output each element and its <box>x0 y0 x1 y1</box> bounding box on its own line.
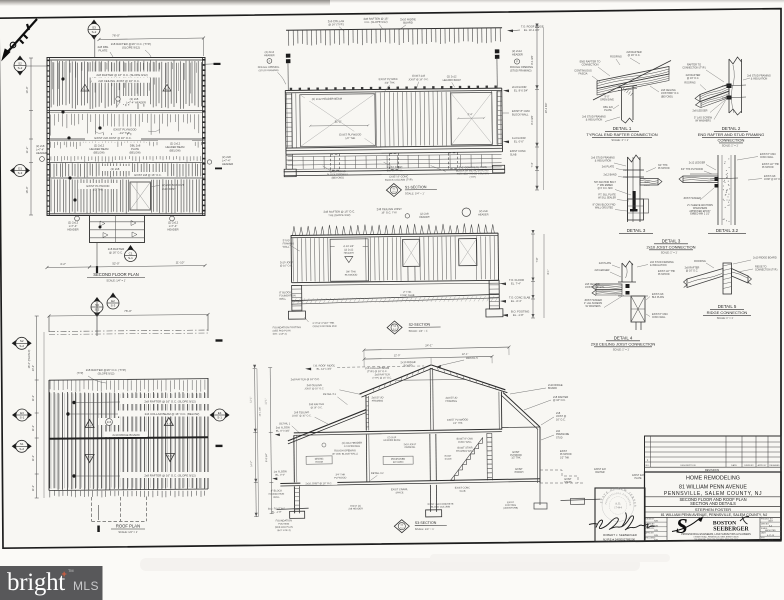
svg-text:EXIST: EXIST <box>565 478 572 481</box>
svg-text:DETAIL 3.2: DETAIL 3.2 <box>716 228 739 233</box>
svg-text:4'-2": 4'-2" <box>60 262 66 266</box>
svg-text:ROOF PLAN: ROOF PLAN <box>116 524 140 529</box>
svg-text:76'-0": 76'-0" <box>124 309 132 313</box>
S3 left dim stack <box>270 368 272 514</box>
svg-text:TM: TM <box>68 569 73 573</box>
roof plan bump-out dashed <box>91 497 93 521</box>
svg-text:EXIST 2x8: EXIST 2x8 <box>412 74 425 78</box>
svg-text:NJ P.E # 24GE02789200: NJ P.E # 24GE02789200 <box>603 537 635 541</box>
svg-text:SHT 1 OF 2): SHT 1 OF 2) <box>277 529 291 532</box>
S3 2nd floor line <box>294 429 502 433</box>
svg-text:CONNECTION (TYP.): CONNECTION (TYP.) <box>755 270 778 272</box>
roof plan edge lines <box>48 380 50 491</box>
svg-text:EXIST 1/2" THK: EXIST 1/2" THK <box>658 270 676 273</box>
svg-text:SCALE: 1/4" = 1': SCALE: 1/4" = 1' <box>409 329 429 333</box>
svg-text:ROOFING: ROOFING <box>610 56 622 59</box>
svg-text:WALL: WALL <box>279 298 286 301</box>
S1 footing line <box>284 169 505 172</box>
svg-text:E2: E2 <box>111 299 115 303</box>
S1 left end posts <box>286 54 291 58</box>
svg-text:BLOCK COLUMN (TYP): BLOCK COLUMN (TYP) <box>385 179 412 182</box>
S2 mid window <box>403 239 420 266</box>
svg-text:W/WASHERS: W/WASHERS <box>693 207 708 210</box>
svg-text:11'-2": 11'-2" <box>25 147 29 154</box>
junction dots <box>61 77 64 80</box>
svg-text:HEADER BEAM: HEADER BEAM <box>384 439 401 442</box>
detail 5 left rafter board <box>687 269 723 288</box>
svg-text:DATE:: DATE: <box>761 532 767 535</box>
svg-text:1/2" THK: 1/2" THK <box>453 422 463 425</box>
callout D1 left <box>10 165 30 177</box>
S1 rafter plate line <box>286 28 502 30</box>
svg-text:EL. -1'-8": EL. -1'-8" <box>513 313 524 317</box>
svg-text:C1: C1 <box>129 251 133 255</box>
svg-text:@ 6' O.C. MIN: @ 6' O.C. MIN <box>598 188 613 190</box>
svg-text:L=7'-4": L=7'-4" <box>169 224 177 228</box>
roof triangles <box>85 420 94 428</box>
S1 section label <box>386 183 401 196</box>
roof rafter light top band <box>50 380 205 392</box>
svg-text:(2) 2x12: (2) 2x12 <box>447 74 457 78</box>
detail 3 anchor bolt <box>633 191 636 211</box>
svg-text:76'-0": 76'-0" <box>112 34 120 38</box>
callout C1 below bump-out <box>125 245 137 262</box>
svg-text:JOIST: JOIST <box>644 185 651 187</box>
svg-text:2x8 RAFTER @ 16" O.C. (SLOPE 9: 2x8 RAFTER @ 16" O.C. (SLOPE 9/12) <box>144 474 195 478</box>
svg-text:HEADER: HEADER <box>419 216 430 219</box>
svg-text:S1-SECTION: S1-SECTION <box>405 185 427 189</box>
triangle symbols band1 <box>81 85 89 92</box>
svg-text:FASCIA: FASCIA <box>579 73 588 76</box>
svg-text:11'-2": 11'-2" <box>32 455 35 461</box>
svg-text:DETAIL 3: DETAIL 3 <box>627 228 646 233</box>
interior beam lines <box>47 110 205 112</box>
callout E4 right <box>210 409 230 421</box>
right black section mark 2 <box>216 445 223 447</box>
svg-text:EXIST PLYWOOD: EXIST PLYWOOD <box>87 184 110 188</box>
porch steps dashed <box>540 470 584 483</box>
svg-text:W/ WASHERS: W/ WASHERS <box>695 120 711 123</box>
svg-text:2'-4": 2'-4" <box>467 112 472 116</box>
svg-text:PLATE: PLATE <box>99 49 108 53</box>
svg-text:JOIST @ 16" O.C.: JOIST @ 16" O.C. <box>305 387 325 390</box>
svg-text:OPEN EAVE: OPEN EAVE <box>600 99 614 102</box>
rafter dim band note 2 <box>120 472 220 478</box>
svg-text:HEADER: HEADER <box>67 228 78 232</box>
svg-text:SCALE: 1" = 1': SCALE: 1" = 1' <box>661 252 678 255</box>
svg-text:BLOCK COLUMN: BLOCK COLUMN <box>431 505 450 508</box>
svg-text:ROOFING: ROOFING <box>694 260 706 263</box>
svg-text:CONNECTION: CONNECTION <box>718 138 745 143</box>
svg-text:+: + <box>62 569 67 579</box>
svg-text:2nd FLOOR: 2nd FLOOR <box>512 85 527 89</box>
svg-text:RIDGE CONNECTION: RIDGE CONNECTION <box>707 310 748 315</box>
S2 rafter spikes <box>292 223 494 235</box>
svg-text:TELEPHONE: (856) 678-4100 FAX: TELEPHONE: (856) 678-4100 FAX: (856) 678… <box>694 538 738 541</box>
svg-text:1/2" THK: 1/2" THK <box>511 458 521 460</box>
svg-text:8'-0 3/4": 8'-0 3/4" <box>531 115 534 124</box>
svg-text:RELEASED: RELEASED <box>769 464 780 467</box>
S3 footings <box>290 511 305 518</box>
svg-text:1/2" THK: 1/2" THK <box>560 457 570 459</box>
svg-text:2x10 JOIST CONNECTION: 2x10 JOIST CONNECTION <box>646 245 695 250</box>
svg-text:3/4" THK PLYWOOD: 3/4" THK PLYWOOD <box>681 168 704 171</box>
svg-text:2x8 HEADER: 2x8 HEADER <box>348 507 363 510</box>
detail 4 x-braced box <box>631 296 645 322</box>
S3 first floor rooms <box>306 456 332 464</box>
left vertical dim lines roof plan <box>36 316 38 498</box>
svg-text:STEPHEN FOSTER: STEPHEN FOSTER <box>695 507 731 512</box>
svg-text:AT OPENINGS: AT OPENINGS <box>344 445 361 448</box>
S3 grade line <box>277 508 309 509</box>
S1 end post connectors <box>287 63 289 90</box>
roof rafter light bottom fringe <box>50 491 205 498</box>
svg-text:BLOCK WALL: BLOCK WALL <box>512 112 529 116</box>
svg-text:@ 16" O.C.: @ 16" O.C. <box>628 54 641 57</box>
svg-text:@ 16" O.C.: @ 16" O.C. <box>553 399 566 402</box>
svg-text:STAIR: STAIR <box>445 458 452 461</box>
svg-text:EL. 14'-1 3/4": EL. 14'-1 3/4" <box>317 368 332 371</box>
S1 wall right edge <box>501 88 504 152</box>
svg-text:E4: E4 <box>218 411 222 415</box>
S2 wall bottom <box>292 280 499 282</box>
roof rafter heavy hatch <box>50 392 205 490</box>
svg-text:JOIST @ 16" O.C.: JOIST @ 16" O.C. <box>585 286 605 289</box>
ridge board <box>49 437 208 439</box>
S2 left opening <box>330 239 368 281</box>
S1 header labels <box>305 96 349 101</box>
svg-text:HEADER: HEADER <box>512 52 523 56</box>
svg-text:DRWN BY: DRWN BY <box>744 465 754 467</box>
svg-text:2x6 COLLAR BEAM @ 16" O.C. (BE: 2x6 COLLAR BEAM @ 16" O.C. (BELOW) <box>145 412 200 416</box>
svg-text:O.C. (SLOPE 9/12): O.C. (SLOPE 9/12) <box>364 20 387 24</box>
svg-text:& INSULATION: & INSULATION <box>650 264 667 267</box>
S3 gable left wall <box>365 395 367 430</box>
detail 3.2 concrete wall <box>717 155 719 225</box>
svg-text:EXIST: EXIST <box>560 450 567 453</box>
svg-text:BLOCK WALL: BLOCK WALL <box>387 169 404 172</box>
svg-text:@ 16" (TYP.): @ 16" (TYP.) <box>328 22 344 26</box>
svg-text:(BEYOND): (BEYOND) <box>332 176 344 179</box>
svg-text:& INSULATION: & INSULATION <box>751 78 768 81</box>
svg-text:D1: D1 <box>18 166 22 170</box>
svg-text:11'-1": 11'-1" <box>249 397 252 403</box>
svg-text:AS NOTED: AS NOTED <box>765 529 776 532</box>
svg-text:RJS: RJS <box>654 525 658 527</box>
svg-text:APPROVED EPOXY: APPROVED EPOXY <box>689 210 711 213</box>
svg-text:L=7'-4": L=7'-4" <box>69 224 77 228</box>
svg-text:W/ WASHERS: W/ WASHERS <box>586 305 601 308</box>
svg-text:7" MIN EMBED: 7" MIN EMBED <box>597 185 613 187</box>
svg-text:2x10 RIDGE BOARD: 2x10 RIDGE BOARD <box>112 433 139 437</box>
svg-text:S3-SECTION: S3-SECTION <box>415 521 437 525</box>
S3 gable roof left slope <box>359 365 431 394</box>
svg-text:16" O.C.: 16" O.C. <box>556 418 566 421</box>
svg-text:T.O. ROOF RIDGE: T.O. ROOF RIDGE <box>521 25 544 29</box>
svg-text:4" LAG SCREWS: 4" LAG SCREWS <box>584 302 603 305</box>
S1 rafter ticks <box>289 28 501 46</box>
porch right wall <box>539 427 541 483</box>
svg-text:TYPICAL END RAFTER CONNECTION: TYPICAL END RAFTER CONNECTION <box>586 132 657 137</box>
S3 attic collar ties <box>397 379 465 382</box>
svg-text:(STUD FRAMING): (STUD FRAMING) <box>259 69 279 72</box>
svg-text:(2) 2x8: (2) 2x8 <box>222 155 231 159</box>
svg-text:DETAIL 4: DETAIL 4 <box>614 336 633 341</box>
collar beam note <box>118 411 223 417</box>
svg-text:DETAIL 3: DETAIL 3 <box>662 239 681 244</box>
svg-text:BOARD: BOARD <box>404 364 413 367</box>
svg-text:19'-1 3/4": 19'-1 3/4" <box>545 103 548 114</box>
svg-text:JOIST HANGER: JOIST HANGER <box>584 299 602 302</box>
section cut line below bump-out <box>96 243 98 269</box>
S1 opening right with X <box>451 92 493 144</box>
detail 5 right rafter board <box>732 269 749 284</box>
svg-text:2x8 LEDGER: 2x8 LEDGER <box>594 269 609 272</box>
svg-text:PLYWOOD: PLYWOOD <box>762 167 774 169</box>
S2 wall studs <box>293 238 328 282</box>
detail 2 bolts <box>727 84 732 89</box>
svg-text:2x10: 2x10 <box>645 182 651 184</box>
rafter dim band note 1 <box>120 398 220 404</box>
svg-text:PLYWOOD: PLYWOOD <box>658 274 670 276</box>
svg-text:3 STATE ROAD, PENNSVILLE, NEW: 3 STATE ROAD, PENNSVILLE, NEW JERSEY 080… <box>693 536 738 539</box>
svg-text:MLS: MLS <box>73 579 99 593</box>
S3 left shed roof <box>288 410 367 441</box>
svg-text:S1: S1 <box>20 442 24 446</box>
svg-text:JOIST @ 16" O.C.: JOIST @ 16" O.C. <box>408 78 429 81</box>
S3 stair wall hatch <box>487 433 492 480</box>
svg-text:SEEBERGER: SEEBERGER <box>713 527 749 533</box>
svg-text:SLAB: SLAB <box>459 490 466 493</box>
svg-text:6-17-19: 6-17-19 <box>767 535 775 537</box>
svg-text:2X8 CEILING JOIST CONNECTION: 2X8 CEILING JOIST CONNECTION <box>591 342 656 347</box>
svg-text:S-3: S-3 <box>18 171 23 175</box>
svg-text:DESCRIPTION: DESCRIPTION <box>681 465 696 467</box>
svg-text:2x12 BAND: 2x12 BAND <box>603 174 616 177</box>
svg-text:PLYWOOD: PLYWOOD <box>345 274 358 277</box>
svg-text:(2) 2x12: (2) 2x12 <box>168 221 179 225</box>
S3 ridge post <box>429 368 432 430</box>
svg-text:EXIST 2x8 @ 16" O.C.: EXIST 2x8 @ 16" O.C. <box>134 173 161 177</box>
svg-text:10'-2": 10'-2" <box>32 365 35 371</box>
svg-text:2x10 JOIST @ 16" O.C.: 2x10 JOIST @ 16" O.C. <box>306 482 333 485</box>
svg-text:(UNDISTURB): (UNDISTURB) <box>503 508 518 510</box>
svg-text:DETAIL 3.2: DETAIL 3.2 <box>371 472 384 475</box>
smudge below sheet <box>140 558 640 571</box>
svg-text:3 of 3: 3 of 3 <box>768 540 774 542</box>
S1 dashed piers <box>330 154 339 170</box>
svg-text:(2) 2x8 BOX OUT: (2) 2x8 BOX OUT <box>162 183 184 187</box>
svg-text:WALL GROUTED: WALL GROUTED <box>595 207 614 210</box>
svg-text:DETAIL 1: DETAIL 1 <box>279 421 291 425</box>
S3 top dim line upper <box>364 347 509 350</box>
svg-text:19'-1 3/4": 19'-1 3/4" <box>260 407 262 417</box>
svg-text:PLYWOOD: PLYWOOD <box>334 476 346 479</box>
svg-text:S2-SECTION: S2-SECTION <box>409 323 431 327</box>
svg-text:(BELOW): (BELOW) <box>93 150 104 154</box>
svg-text:SCALE: 1/4" = 1': SCALE: 1/4" = 1' <box>415 527 435 531</box>
svg-text:EXIST CONC: EXIST CONC <box>510 149 526 153</box>
svg-text:NO.: NO. <box>646 465 650 467</box>
svg-text:EL. 8'-0 3/4": EL. 8'-0 3/4" <box>514 88 528 92</box>
svg-text:FOOTING: FOOTING <box>505 504 516 507</box>
svg-text:SCALE: 1" = 1': SCALE: 1" = 1' <box>613 349 630 352</box>
svg-text:16'-0" (HEATED): 16'-0" (HEATED) <box>28 349 31 368</box>
svg-text:JOIST HANGER: JOIST HANGER <box>683 197 701 200</box>
svg-text:@ 16" O.C.: @ 16" O.C. <box>109 250 123 254</box>
S2 left pier <box>292 285 302 311</box>
S3 interior wall left <box>365 435 367 482</box>
svg-text:@ 16" O.C.: @ 16" O.C. <box>687 77 700 80</box>
svg-text:2x6 PLATE: 2x6 PLATE <box>602 166 615 169</box>
seal circular text ring <box>602 490 634 522</box>
svg-text:EL. 8'-0 3/4": EL. 8'-0 3/4" <box>276 430 290 433</box>
right edge black mark top <box>214 63 221 65</box>
callout S2 left <box>14 56 26 76</box>
bright MLS watermark <box>0 566 103 600</box>
svg-text:W/ SILL SEALER: W/ SILL SEALER <box>598 196 616 199</box>
left dimension line <box>30 58 32 215</box>
svg-text:2x12 LEDGER: 2x12 LEDGER <box>689 162 706 165</box>
svg-text:3/4" THK: 3/4" THK <box>658 164 668 167</box>
svg-text:17444: 17444 <box>614 505 622 509</box>
svg-text:HEADER BEAM: HEADER BEAM <box>443 79 461 82</box>
svg-text:S-1: S-1 <box>128 256 133 260</box>
svg-text:PLYWOOD: PLYWOOD <box>658 168 670 170</box>
svg-text:T.O. FLOOR: T.O. FLOOR <box>509 278 524 282</box>
joist hatch band 5 <box>51 179 129 213</box>
svg-text:1/2" THK: 1/2" THK <box>120 131 131 135</box>
svg-text:HEADER: HEADER <box>36 151 47 155</box>
joist hatch band 3 <box>51 142 202 150</box>
svg-text:11'-2": 11'-2" <box>32 485 35 491</box>
bottom bump-out walls <box>90 216 145 243</box>
svg-text:24'-1": 24'-1" <box>425 343 432 347</box>
svg-text:(2) 2x12 HEADER BEAM: (2) 2x12 HEADER BEAM <box>312 97 343 101</box>
detail 4 ceiling joist boards <box>596 284 622 290</box>
svg-text:RIDGE TO: RIDGE TO <box>755 266 767 269</box>
svg-text:(BELOW): (BELOW) <box>169 148 180 152</box>
svg-text:(BELOW): (BELOW) <box>129 150 140 154</box>
svg-text:EXIST 2x8: EXIST 2x8 <box>764 175 776 178</box>
callout S1 left <box>12 440 32 452</box>
second floor plan top dimension line <box>99 38 204 40</box>
S3 gable roof right slope <box>431 364 505 390</box>
svg-text:RJS: RJS <box>654 530 658 532</box>
svg-text:EXIST: EXIST <box>513 451 520 454</box>
svg-text:EL. -1'-8": EL. -1'-8" <box>272 511 282 514</box>
S3 foundation walls <box>293 486 295 513</box>
svg-text:EL. 7'-4": EL. 7'-4" <box>511 281 521 285</box>
svg-text:ROUGH OPENING: ROUGH OPENING <box>510 65 533 69</box>
svg-text:THE (SLOPE 9/12): THE (SLOPE 9/12) <box>328 213 350 217</box>
svg-text:(2) 2x12: (2) 2x12 <box>94 144 105 148</box>
svg-text:CONC WALL: CONC WALL <box>458 441 473 444</box>
svg-text:bright: bright <box>7 569 65 596</box>
boston seeberger logo <box>672 514 749 538</box>
svg-text:2x8 LEDGER: 2x8 LEDGER <box>692 110 707 113</box>
svg-text:CONC WALL: CONC WALL <box>652 316 666 319</box>
S3 first floor line <box>280 479 540 484</box>
section cut line top <box>96 302 98 336</box>
porch roof slope <box>503 393 540 428</box>
svg-text:2x10 JOIST: 2x10 JOIST <box>162 187 176 191</box>
svg-text:HOME REMODELING: HOME REMODELING <box>686 476 740 482</box>
svg-text:& INSULATION: & INSULATION <box>586 119 603 122</box>
S2 right pier <box>489 280 499 309</box>
svg-text:T.O. CONC SLAB: T.O. CONC SLAB <box>509 296 530 300</box>
header beam labels row <box>82 143 116 154</box>
svg-text:11'-1": 11'-1" <box>264 398 267 404</box>
joist hatch band 2 partial <box>51 114 199 137</box>
svg-text:SPACE: SPACE <box>395 491 403 494</box>
left mini grid <box>645 521 668 523</box>
callout S2 left of roof plan <box>12 337 32 349</box>
svg-text:KITCHEN: KITCHEN <box>393 461 404 464</box>
svg-text:EXIST 8" CMU: EXIST 8" CMU <box>652 313 668 316</box>
svg-text:EXIST 2x8: EXIST 2x8 <box>632 474 644 477</box>
S3 gable right wall <box>500 392 502 430</box>
svg-text:DBL 2x8: DBL 2x8 <box>130 144 141 148</box>
S2 section label <box>387 321 402 334</box>
detail 1 plate lines <box>618 86 637 88</box>
svg-text:ROOM: ROOM <box>315 461 322 464</box>
svg-text:DETAIL 5: DETAIL 5 <box>718 304 737 309</box>
S1 big opening left with X <box>300 94 376 147</box>
S3 section label <box>394 520 409 533</box>
detail 4 plates lines <box>618 281 636 283</box>
revisions table frame <box>645 436 782 472</box>
svg-text:SCALE: 1/4" = 1': SCALE: 1/4" = 1' <box>106 279 126 283</box>
S1 floor band <box>286 152 502 154</box>
svg-text:1/2" THK: 1/2" THK <box>93 187 104 191</box>
svg-text:16" O.C. TYP.: 16" O.C. TYP. <box>381 210 397 214</box>
svg-text:L=7'-4" HEADER: L=7'-4" HEADER <box>126 100 146 104</box>
svg-text:FRAMING: FRAMING <box>405 446 416 449</box>
ceiling joist hatch band 1 <box>51 61 201 110</box>
svg-text:52'-0": 52'-0" <box>112 262 119 266</box>
svg-text:S-2: S-2 <box>19 344 24 348</box>
svg-text:S2: S2 <box>18 61 22 65</box>
S1 studs <box>287 93 297 148</box>
svg-text:2x10 RIDGE BOARD: 2x10 RIDGE BOARD <box>753 257 777 260</box>
svg-text:WALL: WALL <box>273 496 280 499</box>
S1 right end posts <box>495 49 500 53</box>
svg-text:DETAIL 1: DETAIL 1 <box>613 126 632 131</box>
S1 foundation wall hatch <box>288 154 502 169</box>
svg-text:P.T. SILL PLATE: P.T. SILL PLATE <box>598 194 616 197</box>
svg-text:1/2" THK: 1/2" THK <box>345 137 355 140</box>
detail 1 roofing diagonal <box>593 61 671 101</box>
svg-text:8" CMU BLOCK FND: 8" CMU BLOCK FND <box>593 204 616 207</box>
callout S3 top of second floor plan <box>88 20 100 40</box>
svg-text:@ 16" O.C.: @ 16" O.C. <box>310 406 323 409</box>
svg-text:PROFESSIONAL ENGINEERS, LAND S: PROFESSIONAL ENGINEERS, LAND SURVEYORS &… <box>681 533 751 536</box>
seal box <box>595 488 645 542</box>
second floor plan outer walls <box>47 58 205 216</box>
svg-text:CONC FOOTING PAD: CONC FOOTING PAD <box>313 325 337 328</box>
S3 top dim line lower <box>364 356 492 359</box>
svg-text:S-2: S-2 <box>19 447 24 451</box>
svg-text:PORCH: PORCH <box>515 471 524 474</box>
svg-text:8'-1": 8'-1" <box>547 269 550 274</box>
svg-text:WALL: WALL <box>283 246 290 249</box>
section cut mark bottom <box>97 526 100 533</box>
svg-text:EXIST PLYWOOD: EXIST PLYWOOD <box>379 77 401 81</box>
svg-text:16'-0": 16'-0" <box>25 187 29 194</box>
svg-text:RJS: RJS <box>654 540 658 542</box>
svg-text:PLYWOOD: PLYWOOD <box>560 454 572 456</box>
